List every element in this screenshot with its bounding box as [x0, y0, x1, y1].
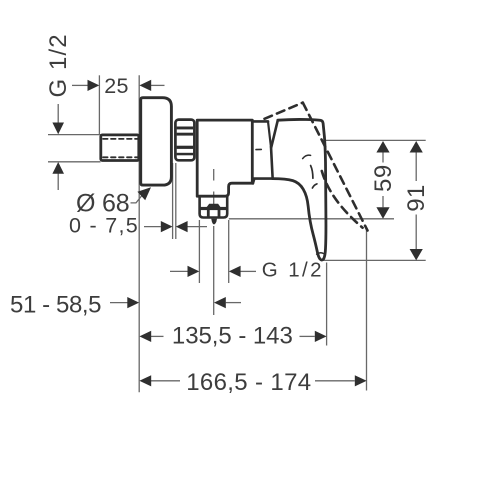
- handle crease line: [303, 155, 311, 158]
- dim 0-7.5 right tail: [188, 226, 208, 228]
- dim 166.5-174 right tail: [315, 380, 355, 382]
- nut rib 1: [177, 127, 194, 130]
- collar right slant: [268, 121, 271, 146]
- extension line x=99.4 (25 dim left): [98, 75, 100, 134]
- wall reference line x=139.2: [138, 75, 140, 392]
- arrow 91 down: [410, 249, 423, 260]
- nipple thread dashes bottom: [103, 156, 138, 158]
- nipple thread dashes top: [103, 138, 138, 140]
- nut rib 3: [177, 146, 194, 149]
- nut rib 4: [177, 153, 194, 156]
- ext line right mid y=219.5: [229, 218, 394, 220]
- svg-text:G 1/2: G 1/2: [262, 258, 324, 281]
- leader line O68: [131, 194, 144, 203]
- centerline upper segment: [213, 169, 215, 181]
- centerline mid segment: [213, 192, 215, 205]
- arrow 25 right: [88, 80, 100, 91]
- arrow outlet G1/2 left-pointing: [229, 266, 241, 277]
- ext line dashed tip x=366.6: [366, 230, 368, 391]
- dim outlet G1/2 left tail: [170, 270, 188, 272]
- body/collar step: [253, 179, 273, 184]
- arrow 0-7.5 right-pointing: [161, 221, 173, 232]
- collar lower right edge: [271, 147, 273, 178]
- outlet connector outline: [200, 197, 228, 218]
- dim 0-7.5 left tail: [144, 226, 161, 228]
- collar surface dash: [256, 148, 261, 150]
- dim 91 lower segment: [415, 215, 417, 250]
- handle tip inner line: [317, 253, 324, 254]
- arrow G1/2 down: [52, 123, 64, 135]
- arrow 91 up: [410, 141, 423, 153]
- dim line G1/2 lower tail: [57, 174, 59, 191]
- dim 51-58.5 left tail: [110, 302, 128, 304]
- arrow 51-58.5 right-pointing: [127, 297, 139, 308]
- ext line handle tip x=326.6: [326, 263, 328, 346]
- nut rib 2: [177, 133, 194, 136]
- dashed handle back edge: [322, 171, 363, 228]
- dim 51-58.5 right tail: [226, 302, 241, 304]
- outlet nut separator right: [218, 209, 221, 217]
- arrow 51-58.5 left-pointing: [214, 297, 226, 308]
- arrow leader O68: [137, 187, 151, 200]
- dashed handle top edge: [265, 103, 303, 119]
- valve body outline: [197, 120, 253, 196]
- svg-text:135,5 - 143: 135,5 - 143: [172, 322, 293, 349]
- aerator drop tip: [211, 219, 217, 225]
- escutcheon: [141, 98, 172, 185]
- dim 59 upper segment: [382, 152, 384, 163]
- collar top edge: [254, 120, 268, 123]
- dim 135.5-143 right tail: [300, 335, 315, 337]
- dashed handle front edge: [303, 103, 368, 231]
- dim 25 left tail: [72, 84, 88, 86]
- pipe nipple: [101, 135, 139, 161]
- arrow 166.5-174 left end: [139, 375, 151, 386]
- dim 135.5-143 left tail: [151, 335, 164, 337]
- svg-text:91: 91: [403, 184, 430, 212]
- handle base left slant: [271, 120, 278, 147]
- svg-text:25: 25: [104, 74, 129, 98]
- outlet nut trapezoid: [206, 204, 222, 209]
- outlet nut mid bar: [200, 207, 227, 210]
- handle outline: top, front edge, tip, back edge, underside: [273, 119, 326, 260]
- svg-text:G 1/2: G 1/2: [45, 33, 72, 97]
- arrow 166.5-174 right end: [355, 375, 367, 386]
- dim 59 lower segment: [382, 196, 384, 207]
- ext line outlet G1/2 left: [198, 220, 200, 283]
- dim 25 right tail: [151, 84, 165, 86]
- dashed handle heel arc dash 2: [312, 184, 317, 188]
- dim 91 upper segment: [415, 152, 417, 181]
- ext line 0-7.5 left: [172, 163, 174, 239]
- ext line outlet G1/2 right: [228, 220, 230, 283]
- dashed handle heel arc dash 1: [311, 166, 313, 179]
- arrow 59 down: [376, 207, 389, 219]
- ext line right bottom y=260.4: [324, 259, 426, 261]
- svg-text:166,5 - 174: 166,5 - 174: [186, 369, 311, 396]
- svg-text:0 - 7,5: 0 - 7,5: [69, 213, 139, 237]
- extension line pipe bottom: [48, 161, 101, 163]
- extension line pipe top: [48, 134, 101, 136]
- arrow outlet G1/2 right-pointing: [188, 266, 200, 277]
- svg-text:51 - 58,5: 51 - 58,5: [10, 292, 101, 319]
- dim 166.5-174 left tail: [151, 380, 180, 382]
- dim line G1/2 upper tail: [57, 104, 59, 123]
- arrow 59 up: [376, 141, 389, 153]
- arrow 135.5-143 right end: [315, 331, 327, 342]
- arrow 0-7.5 left-pointing: [176, 221, 188, 232]
- ext line right top y=140.4: [325, 139, 426, 141]
- arrow 25 left: [139, 80, 151, 91]
- dim outlet G1/2 right tail: [241, 270, 257, 272]
- ext line 0-7.5 right: [175, 163, 177, 239]
- outlet nut separator left: [207, 209, 210, 217]
- svg-text:59: 59: [370, 164, 397, 192]
- connection nut: [175, 120, 194, 161]
- centerline lower segment: [213, 226, 215, 315]
- arrow G1/2 up: [52, 162, 64, 174]
- arrow 135.5-143 left end: [139, 331, 151, 342]
